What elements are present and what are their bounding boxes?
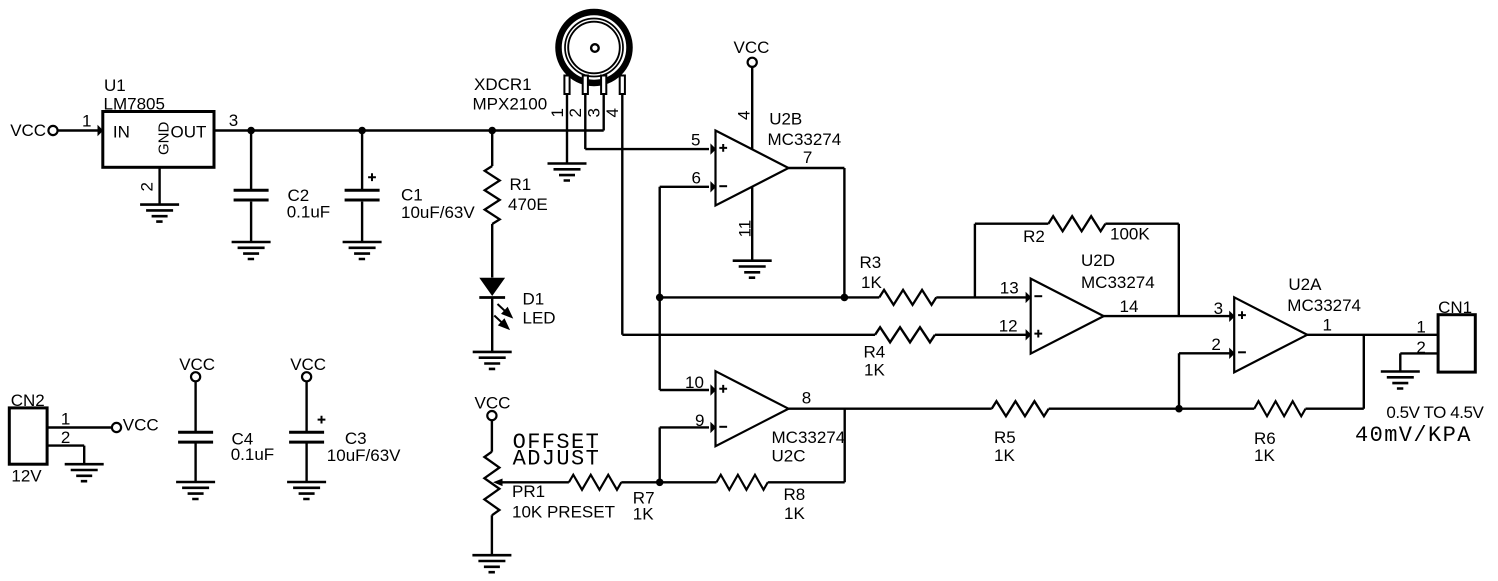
svg-text:R8: R8 [784, 485, 806, 504]
svg-text:MC33274: MC33274 [768, 130, 842, 149]
svg-text:MC33274: MC33274 [1287, 296, 1361, 315]
svg-text:R2: R2 [1023, 227, 1045, 246]
svg-text:1K: 1K [784, 504, 805, 523]
svg-text:R1: R1 [510, 175, 532, 194]
svg-text:40mV/KPA: 40mV/KPA [1355, 423, 1472, 448]
svg-text:U2B: U2B [769, 110, 802, 129]
svg-text:1: 1 [548, 108, 567, 117]
svg-text:ADJUST: ADJUST [513, 446, 601, 471]
svg-text:5: 5 [691, 130, 700, 149]
svg-text:VCC: VCC [475, 393, 511, 412]
svg-text:1K: 1K [1254, 446, 1275, 465]
svg-text:R4: R4 [864, 343, 886, 362]
svg-text:GND: GND [156, 122, 173, 156]
svg-text:R5: R5 [994, 428, 1016, 447]
svg-text:1K: 1K [864, 361, 885, 380]
svg-text:2: 2 [1416, 338, 1425, 357]
svg-text:MPX2100: MPX2100 [473, 94, 548, 113]
svg-text:VCC: VCC [10, 121, 46, 140]
svg-text:U2D: U2D [1081, 251, 1115, 270]
svg-text:VCC: VCC [179, 355, 215, 374]
svg-text:U2A: U2A [1288, 275, 1322, 294]
svg-text:R3: R3 [860, 253, 882, 272]
svg-text:MC33274: MC33274 [1081, 273, 1155, 292]
svg-text:U1: U1 [104, 76, 126, 95]
svg-text:10uF/63V: 10uF/63V [327, 446, 401, 465]
svg-text:10: 10 [685, 373, 704, 392]
svg-text:MC33274: MC33274 [772, 428, 846, 447]
svg-text:LM7805: LM7805 [104, 94, 165, 113]
svg-text:C1: C1 [401, 185, 423, 204]
svg-text:0.1uF: 0.1uF [231, 445, 274, 464]
svg-text:1K: 1K [633, 505, 654, 524]
svg-text:12: 12 [999, 316, 1018, 335]
svg-text:1K: 1K [861, 273, 882, 292]
svg-text:1: 1 [1416, 318, 1425, 337]
svg-text:11: 11 [736, 220, 755, 238]
svg-text:1: 1 [61, 409, 70, 428]
svg-text:2: 2 [61, 428, 70, 447]
svg-text:4: 4 [735, 111, 754, 120]
svg-text:XDCR1: XDCR1 [474, 75, 532, 94]
svg-text:0.5V TO 4.5V: 0.5V TO 4.5V [1386, 403, 1484, 422]
svg-text:2: 2 [1211, 335, 1220, 354]
svg-text:6: 6 [692, 168, 701, 187]
svg-text:4: 4 [603, 108, 622, 117]
svg-text:3: 3 [1214, 299, 1223, 318]
svg-text:D1: D1 [523, 290, 545, 309]
svg-text:VCC: VCC [290, 355, 326, 374]
svg-text:7: 7 [803, 148, 812, 167]
svg-text:13: 13 [1000, 278, 1019, 297]
svg-text:U2C: U2C [772, 446, 806, 465]
svg-text:470E: 470E [508, 195, 548, 214]
svg-text:14: 14 [1120, 297, 1139, 316]
svg-text:VCC: VCC [734, 38, 770, 57]
svg-text:IN: IN [113, 122, 130, 141]
svg-text:100K: 100K [1110, 225, 1150, 244]
svg-text:1: 1 [82, 112, 91, 131]
svg-text:0.1uF: 0.1uF [287, 203, 330, 222]
svg-text:3: 3 [229, 111, 238, 130]
svg-text:12V: 12V [11, 466, 42, 485]
svg-text:2: 2 [138, 182, 157, 191]
svg-text:CN1: CN1 [1438, 298, 1472, 317]
svg-text:OUT: OUT [171, 123, 207, 142]
svg-text:PR1: PR1 [512, 482, 545, 501]
svg-text:VCC: VCC [123, 416, 159, 435]
svg-text:3: 3 [585, 108, 604, 117]
svg-text:8: 8 [802, 388, 811, 407]
svg-text:2: 2 [566, 108, 585, 117]
svg-text:CN2: CN2 [11, 391, 45, 410]
svg-text:10uF/63V: 10uF/63V [401, 203, 475, 222]
svg-text:9: 9 [695, 411, 704, 430]
svg-text:LED: LED [523, 309, 556, 328]
svg-text:1: 1 [1323, 316, 1332, 335]
svg-text:10K PRESET: 10K PRESET [512, 503, 615, 522]
svg-text:1K: 1K [994, 446, 1015, 465]
